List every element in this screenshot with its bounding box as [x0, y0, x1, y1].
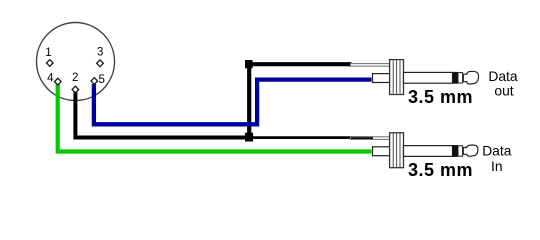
svg-text:1: 1 — [45, 47, 51, 59]
wire green (pin 4 to Data In plug) — [58, 84, 372, 152]
plug P2 neck — [373, 147, 391, 156]
plug P2 tip — [463, 145, 478, 156]
corner square (black wire top corner) — [245, 60, 253, 68]
svg-text:3.5 mm: 3.5 mm — [408, 160, 473, 180]
plug P1 neck — [373, 74, 391, 83]
plug P2 barrel — [404, 146, 453, 157]
svg-text:Data: Data — [488, 69, 517, 84]
wire black thin (junction to Data In plug) — [249, 136, 373, 139]
svg-text:Data: Data — [482, 143, 511, 158]
plug P1 insulator band — [453, 72, 459, 84]
svg-text:2: 2 — [72, 72, 78, 84]
junction dot (black wires) — [245, 133, 253, 142]
pin 3 — [97, 60, 104, 67]
plug P1 collar ribs — [393, 60, 400, 94]
svg-text:In: In — [491, 159, 503, 174]
plug P1 ribbed collar — [390, 60, 404, 95]
plug P2 insulator band — [453, 145, 459, 157]
plug P1 ring — [458, 73, 463, 83]
svg-text:4: 4 — [47, 72, 54, 84]
wire black branch (junction up and right to Data out plug) — [249, 64, 351, 136]
DIN-5 connector shell J1 — [37, 23, 115, 101]
plug P2 collar ribs — [393, 134, 400, 168]
plug P1 barrel — [404, 72, 453, 83]
wire black (pin 2 ground bus) — [75, 91, 249, 138]
plug P1 tip — [463, 71, 478, 84]
svg-text:3: 3 — [97, 47, 103, 59]
plug P2 (Data In) cable sleeve — [351, 137, 390, 140]
plug P1 (Data out) cable sleeve — [351, 64, 390, 67]
pin 5 — [91, 78, 98, 85]
pin 2 — [72, 86, 79, 93]
svg-text:5: 5 — [98, 74, 104, 86]
plug P2 ribbed collar — [390, 133, 404, 168]
svg-text:3.5 mm: 3.5 mm — [408, 87, 473, 107]
svg-text:out: out — [494, 84, 513, 99]
wire blue (pin 5 to Data out plug) — [94, 80, 372, 125]
plug P2 ring — [458, 146, 463, 156]
pin 4 — [54, 78, 61, 85]
pin 1 — [46, 60, 53, 67]
